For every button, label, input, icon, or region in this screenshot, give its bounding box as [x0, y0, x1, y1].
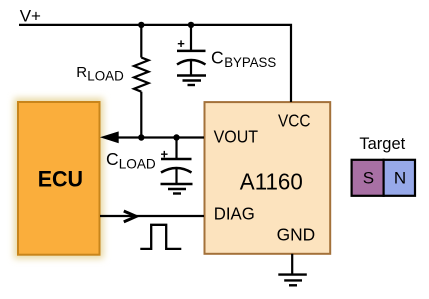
junction V+/CBYPASS	[188, 22, 194, 28]
wire resistor bottom	[140, 92, 142, 138]
ground (CBYPASS)	[177, 76, 206, 86]
magnet N pole	[384, 160, 415, 196]
svg-text:BYPASS: BYPASS	[224, 54, 276, 70]
arrow into ECU	[100, 131, 119, 143]
svg-text:C: C	[106, 149, 119, 169]
wire V+ rail	[19, 25, 291, 102]
svg-text:GND: GND	[277, 225, 316, 245]
ECU block glow	[14, 98, 104, 259]
ECU block U2	[18, 102, 100, 255]
svg-text:LOAD: LOAD	[87, 69, 124, 84]
junction VOUT/CLOAD	[173, 134, 179, 140]
svg-text:DIAG: DIAG	[214, 203, 255, 223]
svg-text:V+: V+	[20, 6, 41, 25]
svg-text:C: C	[211, 47, 224, 67]
capacitor CLOAD	[161, 146, 192, 184]
wire VOUT	[112, 136, 204, 138]
wire CLOAD stem	[175, 138, 177, 160]
ground (A1160 GND)	[278, 275, 307, 286]
wire CBYPASS stem	[190, 25, 192, 51]
A1160 block U1	[205, 102, 331, 254]
svg-text:VCC: VCC	[278, 110, 311, 130]
svg-text:A1160: A1160	[240, 168, 303, 194]
ground (CLOAD)	[161, 184, 193, 194]
arrow into A1160 (open chevron)	[124, 211, 136, 222]
resistor RLOAD	[134, 58, 149, 92]
wire GND stem	[291, 254, 293, 275]
capacitor CBYPASS	[177, 36, 206, 75]
junction VOUT/RLOAD	[138, 134, 144, 140]
svg-text:R: R	[76, 64, 87, 81]
magnet S pole	[352, 160, 384, 196]
pulse waveform symbol	[140, 225, 181, 249]
svg-text:S: S	[363, 168, 374, 187]
wire resistor top	[140, 25, 142, 58]
junction V+/RLOAD	[138, 22, 144, 28]
svg-text:VOUT: VOUT	[214, 126, 259, 146]
svg-text:LOAD: LOAD	[119, 156, 156, 172]
svg-text:ECU: ECU	[38, 166, 83, 191]
svg-text:+: +	[161, 146, 169, 161]
wire DIAG	[100, 215, 204, 217]
svg-text:+: +	[177, 36, 185, 51]
svg-text:N: N	[394, 168, 406, 187]
svg-text:Target: Target	[359, 135, 405, 153]
